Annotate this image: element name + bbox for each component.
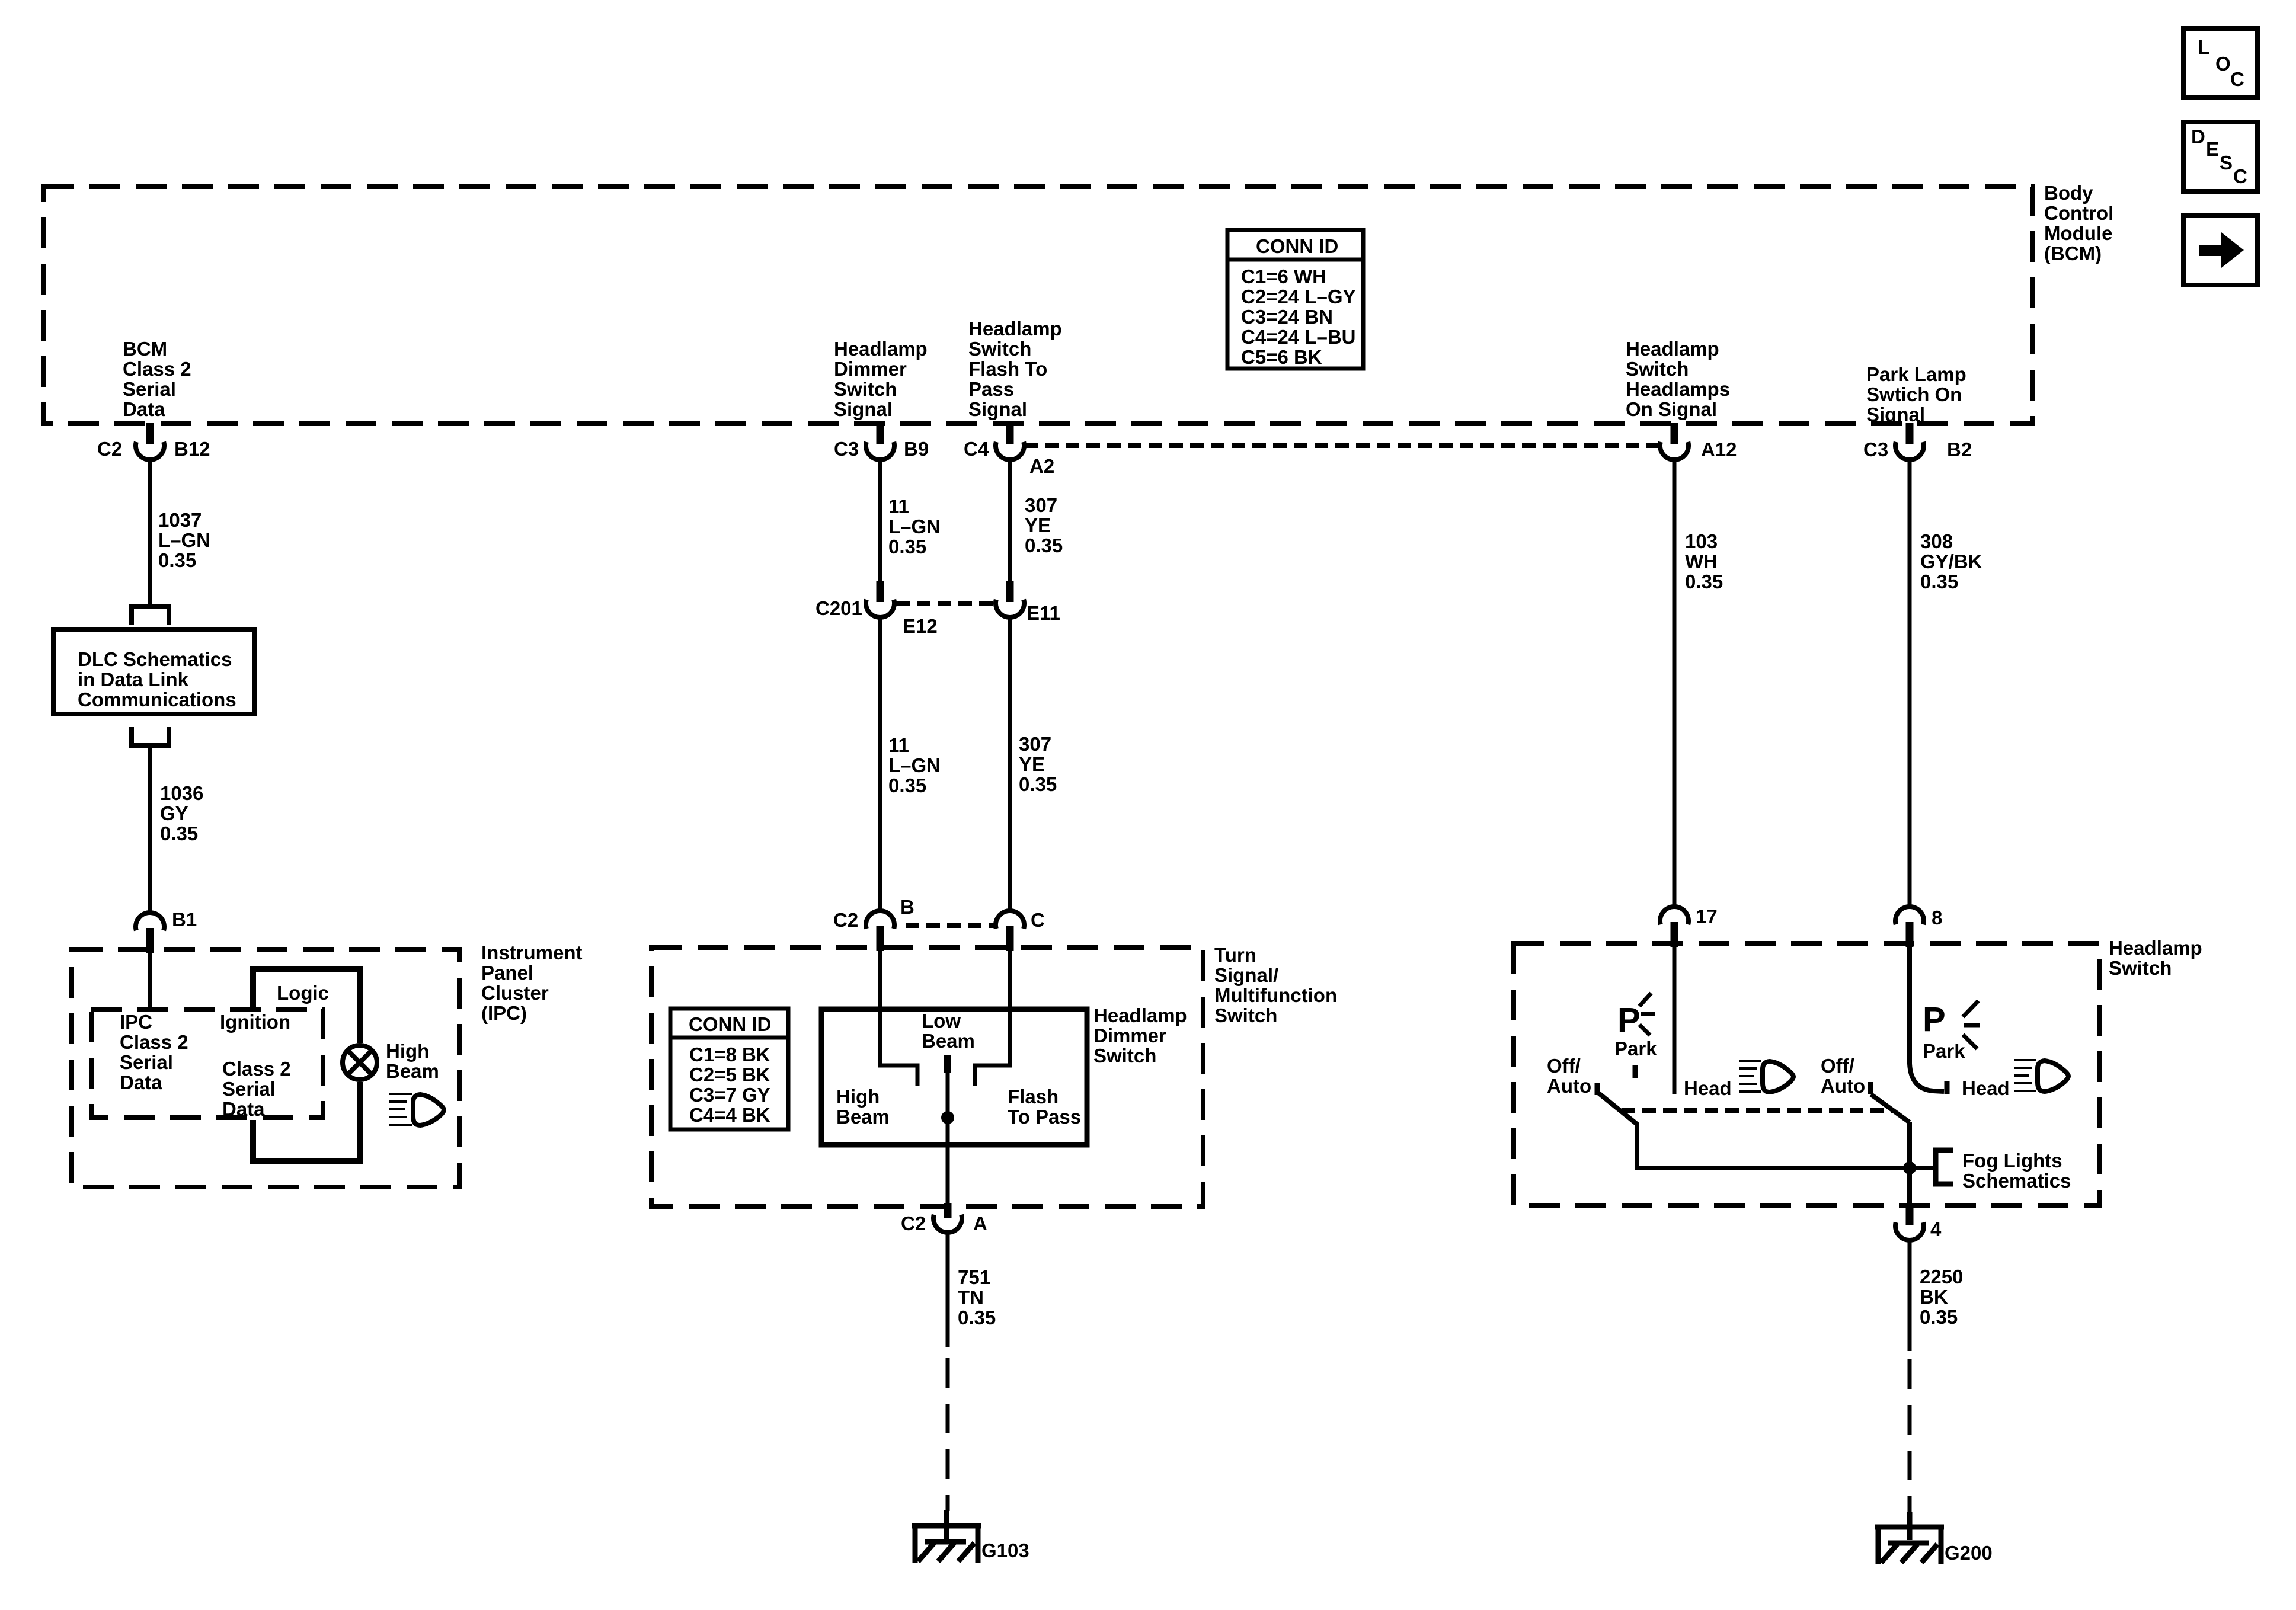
Logic box [253,969,360,1161]
Instrument Panel Cluster (IPC) dashed box [72,949,459,1187]
wire pin 17 to left Head contact [1673,945,1677,1094]
svg-text:BCM: BCM [123,338,167,360]
svg-text:0.35: 0.35 [1920,1306,1958,1328]
BCM Class 2 Serial Data pin label [123,338,191,420]
wire label 308 GY/BK 0.35 [1920,530,1982,593]
svg-text:C: C [1031,909,1045,931]
connector C2 pin B12 (BCM) [97,423,210,460]
svg-text:0.35: 0.35 [1920,571,1958,593]
Ignition Class 2 Serial Data label [222,1058,291,1120]
Body Control Module (BCM) dashed box [43,187,2033,424]
svg-text:Beam: Beam [386,1060,439,1082]
svg-text:L–GN: L–GN [888,516,941,537]
svg-text:Control: Control [2044,202,2113,224]
svg-text:High: High [836,1086,880,1108]
Park Lamp Swtich On Signal pin label [1866,363,1966,425]
svg-text:Switch: Switch [968,338,1031,360]
right Head contact label [1962,1077,2010,1099]
left Park contact tick [1633,1065,1638,1078]
svg-text:Switch: Switch [834,378,897,400]
dotted link B to C [906,923,996,928]
svg-text:C2=5 BK: C2=5 BK [689,1064,770,1086]
switch linkage dotted line [1622,1108,1892,1113]
svg-text:C4=24 L–BU: C4=24 L–BU [1241,326,1356,348]
svg-text:Low: Low [922,1010,961,1032]
svg-text:Multifunction: Multifunction [1214,984,1337,1006]
svg-text:Park: Park [1614,1038,1657,1060]
svg-text:DLC Schematics: DLC Schematics [78,648,232,670]
CONN ID table (switch connectors) [670,1009,788,1129]
connector B1 (IPC) [136,908,197,953]
svg-text:L–GN: L–GN [888,754,941,776]
wire junction to fog bracket [1910,1166,1933,1170]
connector C2 pin A [901,1203,987,1234]
left park lamp symbol P [1617,993,1655,1039]
svg-text:4: 4 [1930,1218,1942,1240]
DESC reference box [2183,122,2257,191]
svg-text:in Data Link: in Data Link [78,668,189,690]
wire B1 into IPC serial data box [148,949,152,1009]
right Head contact tick [1945,1081,1950,1094]
svg-text:L–GN: L–GN [158,529,210,551]
connector pin 8 (headlamp switch) [1895,907,1942,947]
connector C201 pin E12 [816,581,938,637]
svg-text:Class 2: Class 2 [123,358,191,380]
svg-text:Turn: Turn [1214,944,1256,966]
svg-text:Signal: Signal [834,398,893,420]
svg-text:B2: B2 [1947,438,1972,460]
svg-text:Headlamp: Headlamp [968,318,1062,340]
Body Control Module (BCM) name label [2044,182,2113,264]
svg-text:0.35: 0.35 [1019,773,1057,795]
ground G103 [912,1510,1029,1563]
svg-text:CONN ID: CONN ID [1256,235,1338,257]
svg-text:8: 8 [1932,907,1942,929]
svg-text:High: High [386,1040,429,1062]
svg-text:BK: BK [1920,1286,1948,1308]
Turn Signal/Multifunction Switch dashed box [651,948,1203,1206]
svg-text:Head: Head [1962,1077,2010,1099]
svg-text:Beam: Beam [836,1106,890,1128]
connector C2 pin B (multifunction switch) [833,896,914,951]
svg-text:0.35: 0.35 [958,1307,996,1329]
svg-text:C2=24 L–GY: C2=24 L–GY [1241,286,1356,308]
Headlamp Dimmer Switch Signal pin label [834,338,928,420]
IPC Class 2 Serial Data label [120,1011,188,1093]
svg-text:Communications: Communications [78,689,236,710]
svg-text:11: 11 [888,734,909,756]
svg-text:Off/: Off/ [1547,1055,1581,1077]
svg-text:Flash To: Flash To [968,358,1047,380]
svg-text:C4=4 BK: C4=4 BK [689,1104,770,1126]
svg-text:On Signal: On Signal [1626,398,1717,420]
svg-text:307: 307 [1019,733,1051,755]
svg-text:Data: Data [123,398,165,420]
connector C3 pin B9 (BCM) [834,423,929,460]
left switch blade and wire to fog junction [1597,1092,1910,1168]
forward arrow box [2183,216,2257,285]
svg-text:TN: TN [958,1286,984,1308]
svg-text:C5=6 BK: C5=6 BK [1241,346,1322,368]
svg-text:Head: Head [1684,1077,1732,1099]
wire label 2250 BK 0.35 [1920,1266,1963,1328]
Fog Lights Schematics label [1962,1150,2071,1192]
svg-text:Logic: Logic [277,982,329,1004]
connector pin 4 (headlamp switch) [1895,1207,1942,1240]
svg-text:To Pass: To Pass [1008,1106,1081,1128]
wire 11 L-GN (C201 to switch pin B) [878,617,882,912]
low beam common pole stub [944,1055,951,1073]
svg-text:B9: B9 [904,438,929,460]
wire 2250 BK (pin 4 to ground) [1908,1240,1912,1351]
svg-text:17: 17 [1696,905,1718,927]
svg-text:C1=8 BK: C1=8 BK [689,1044,770,1065]
wire 11 L-GN (B9 to C201 E12) [878,460,882,583]
left Head contact label [1684,1077,1732,1099]
IPC Class 2 Serial Data dashed box [91,1009,323,1118]
svg-text:0.35: 0.35 [160,822,198,844]
svg-text:Auto: Auto [1547,1075,1591,1097]
svg-text:Pass: Pass [968,378,1014,400]
dotted link A2 to A12 [1024,443,1660,448]
left Off/Auto contact label [1547,1055,1591,1097]
left Park contact label [1614,1038,1657,1060]
wire pin C to flash-to-pass contact hook [975,948,1010,1086]
wire pin B to high beam contact hook [880,948,917,1086]
svg-text:C: C [2230,68,2244,90]
connector pin 17 (headlamp switch) [1660,905,1718,947]
svg-text:CONN ID: CONN ID [689,1013,771,1035]
Turn Signal Multifunction Switch name label [1214,944,1337,1026]
svg-text:Park: Park [1923,1040,1965,1062]
svg-text:YE: YE [1019,753,1045,775]
Flash To Pass contact label [1008,1086,1081,1128]
svg-text:0.35: 0.35 [1685,571,1723,593]
wire 307 YE (C201 to switch pin C) [1008,617,1012,912]
right park lamp symbol P [1923,1000,1980,1049]
svg-text:Ignition: Ignition [220,1011,290,1033]
right head beam icon [2014,1060,2068,1092]
wire label 11 L-GN 0.35 (upper) [888,495,941,558]
LOC reference box [2183,28,2257,98]
svg-text:Data: Data [120,1071,162,1093]
svg-text:0.35: 0.35 [1025,534,1063,556]
off-page bracket below DLC box [132,727,169,745]
svg-text:308: 308 [1920,530,1953,552]
dashed wire to ground G103 [946,1358,950,1511]
svg-text:Class 2: Class 2 [120,1031,188,1053]
wire 103 WH (A12 to switch pin 17) [1673,460,1677,908]
right Park contact label [1923,1040,1965,1062]
svg-text:1037: 1037 [158,509,202,531]
wire dimmer common out of switch box [946,1145,950,1204]
svg-text:C2: C2 [833,909,858,931]
svg-text:Fog Lights: Fog Lights [1962,1150,2062,1172]
svg-text:Instrument: Instrument [481,942,583,964]
High Beam contact label [836,1086,890,1128]
Instrument Panel Cluster (IPC) name label [481,942,583,1024]
svg-text:C: C [2233,165,2247,187]
svg-text:B: B [900,896,914,918]
svg-text:E: E [2206,138,2219,160]
wire right switch common to pin 4 [1907,1122,1912,1207]
svg-text:Headlamp: Headlamp [2109,937,2202,959]
high beam icon (IPC) [389,1094,444,1125]
fog lights off-page bracket [1936,1150,1953,1184]
svg-text:Swtich On: Swtich On [1866,383,1962,405]
svg-text:1036: 1036 [160,782,203,804]
wire label 1037 L-GN 0.35 [158,509,210,571]
svg-text:A12: A12 [1701,438,1737,460]
svg-text:Serial: Serial [120,1051,173,1073]
svg-text:Class 2: Class 2 [222,1058,291,1080]
svg-text:P: P [1923,1000,1946,1039]
svg-text:Signal/: Signal/ [1214,964,1278,986]
left Off/Auto contact tick [1595,1083,1600,1095]
wire label 1036 GY 0.35 [160,782,203,844]
high beam indicator lamp [343,1045,377,1080]
Low Beam pole label [922,1010,975,1052]
svg-text:C3=24 BN: C3=24 BN [1241,306,1333,328]
svg-text:Headlamp: Headlamp [1093,1004,1187,1026]
svg-text:E12: E12 [903,615,938,637]
wire 1036 GY (DLC to IPC B1) [148,745,152,913]
Headlamp Switch dashed box [1514,943,2099,1205]
svg-text:B1: B1 [172,908,197,930]
svg-text:Switch: Switch [1214,1004,1277,1026]
svg-text:C4: C4 [964,438,989,460]
svg-text:GY: GY [160,802,188,824]
svg-text:C1=6 WH: C1=6 WH [1241,265,1326,287]
dimmer switch common wire [946,1073,950,1145]
connector C4 pin A2 (BCM) [964,423,1054,477]
svg-text:0.35: 0.35 [158,549,196,571]
svg-text:C3: C3 [834,438,859,460]
svg-text:Data: Data [222,1098,265,1120]
svg-text:103: 103 [1685,530,1718,552]
svg-text:(IPC): (IPC) [481,1002,527,1024]
wire pin 8 curved to right Head contact [1910,945,1944,1092]
svg-text:C3=7 GY: C3=7 GY [689,1084,770,1106]
wire label 307 YE 0.35 (upper) [1025,494,1063,556]
Headlamp Dimmer Switch box [821,1009,1087,1145]
svg-text:307: 307 [1025,494,1057,516]
svg-text:Beam: Beam [922,1030,975,1052]
svg-text:11: 11 [888,495,909,517]
CONN ID table (BCM connectors) [1227,230,1363,369]
Ignition label [220,1011,290,1033]
connector C3 pin B2 (BCM) [1863,423,1972,460]
connector C201 pin E11 [996,581,1060,624]
svg-text:C201: C201 [816,597,862,619]
svg-text:Serial: Serial [123,378,176,400]
wire label 751 TN 0.35 [958,1266,996,1329]
right switch blade [1871,1094,1910,1122]
svg-text:0.35: 0.35 [888,536,926,558]
svg-text:0.35: 0.35 [888,774,926,796]
svg-text:Serial: Serial [222,1078,276,1100]
Headlamp Dimmer Switch name label [1093,1004,1187,1067]
right Off/Auto contact tick [1868,1082,1873,1094]
dashed wire to ground G200 [1908,1359,1912,1512]
svg-text:Park Lamp: Park Lamp [1866,363,1966,385]
Headlamp Switch Flash To Pass Signal pin label [968,318,1062,420]
svg-text:G103: G103 [981,1539,1029,1561]
connector pin A12 (BCM) [1660,423,1737,460]
junction dot (fog lights tap) [1903,1161,1916,1174]
svg-text:Panel: Panel [481,962,533,984]
svg-text:Body: Body [2044,182,2093,204]
ground G200 [1875,1512,1993,1564]
svg-text:C3: C3 [1863,438,1888,460]
wire label 103 WH 0.35 [1685,530,1723,593]
svg-text:Switch: Switch [1626,358,1689,380]
svg-text:P: P [1617,1001,1641,1039]
svg-text:A2: A2 [1029,455,1054,477]
svg-text:Signal: Signal [1866,404,1925,425]
svg-text:O: O [2215,53,2231,75]
svg-text:Schematics: Schematics [1962,1170,2071,1192]
svg-text:WH: WH [1685,550,1718,572]
svg-text:Flash: Flash [1008,1086,1059,1108]
svg-text:Auto: Auto [1821,1075,1865,1097]
wire label 307 YE 0.35 (lower) [1019,733,1057,795]
wire 1037 L-GN (B12 to DLC) [148,460,152,606]
dotted link E12 to E11 [896,601,996,606]
svg-text:B12: B12 [174,438,210,460]
svg-text:(BCM): (BCM) [2044,242,2102,264]
svg-text:Headlamp: Headlamp [1626,338,1719,360]
svg-text:L: L [2198,36,2209,58]
svg-text:Module: Module [2044,222,2112,244]
svg-text:2250: 2250 [1920,1266,1963,1288]
svg-text:Dimmer: Dimmer [1093,1025,1166,1046]
High Beam indicator label [386,1040,439,1082]
svg-text:GY/BK: GY/BK [1920,550,1982,572]
wire label 11 L-GN 0.35 (lower) [888,734,941,796]
wire 307 YE (A2 to C201 E11) [1008,460,1012,583]
svg-text:C2: C2 [901,1212,926,1234]
svg-text:D: D [2191,126,2205,148]
svg-text:YE: YE [1025,514,1051,536]
svg-text:S: S [2220,152,2233,174]
svg-text:751: 751 [958,1266,990,1288]
svg-text:Headlamp: Headlamp [834,338,928,360]
left head beam icon [1739,1061,1793,1092]
svg-text:Cluster: Cluster [481,982,549,1004]
svg-text:A: A [973,1212,987,1234]
Headlamp Switch Headlamps On Signal pin label [1626,338,1730,420]
wire 751 TN (A to ground) [946,1233,950,1347]
svg-text:G200: G200 [1945,1542,1993,1564]
right Off/Auto contact label [1821,1055,1865,1097]
svg-text:C2: C2 [97,438,122,460]
svg-text:Signal: Signal [968,398,1027,420]
svg-text:E11: E11 [1027,602,1060,624]
svg-text:IPC: IPC [120,1011,152,1033]
junction dot (dimmer common) [941,1111,954,1124]
DLC Schematics in Data Link Communications box [53,629,254,714]
Headlamp Switch name label [2109,937,2202,979]
connector pin C (multifunction switch) [996,909,1045,951]
wire 308 GY/BK (B2 to switch pin 8) [1908,460,1912,908]
svg-text:Switch: Switch [1093,1045,1156,1067]
svg-text:Dimmer: Dimmer [834,358,907,380]
svg-text:Switch: Switch [2109,957,2172,979]
off-page bracket above DLC box [132,607,169,625]
svg-text:Headlamps: Headlamps [1626,378,1730,400]
svg-text:Off/: Off/ [1821,1055,1854,1077]
